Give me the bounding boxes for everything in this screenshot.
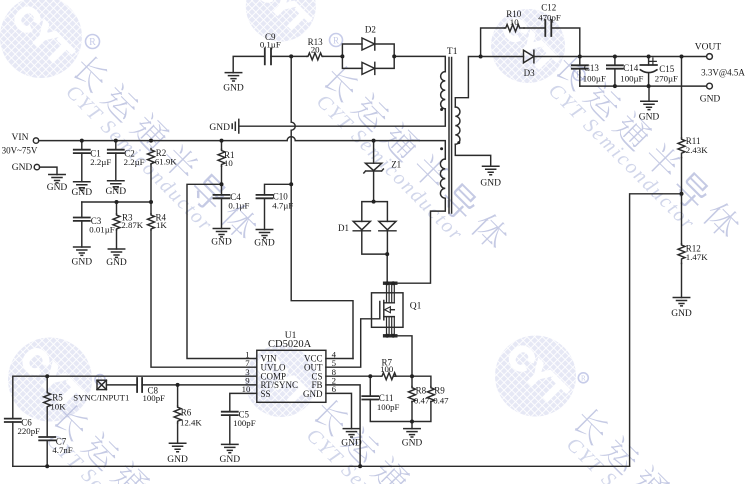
wire secondary top to output node bbox=[455, 57, 480, 108]
wire FB pin 2 to divider tap bbox=[326, 385, 360, 466]
wire output bottom rail bbox=[580, 85, 707, 87]
svg-text:R6: R6 bbox=[181, 407, 192, 417]
svg-text:220pF: 220pF bbox=[18, 426, 41, 436]
svg-text:R: R bbox=[333, 35, 339, 45]
svg-text:Q1: Q1 bbox=[410, 302, 422, 312]
wire R2 to mid node bbox=[150, 165, 152, 203]
svg-text:470pF: 470pF bbox=[538, 12, 561, 22]
resistor R11 bbox=[678, 57, 708, 194]
svg-text:0.01µF: 0.01µF bbox=[89, 224, 114, 234]
ground bbox=[254, 230, 275, 249]
ground bbox=[402, 429, 423, 449]
svg-text:100: 100 bbox=[380, 364, 394, 374]
node GND input terminal bbox=[12, 163, 40, 173]
svg-text:GND: GND bbox=[209, 123, 230, 133]
ground bbox=[167, 443, 188, 465]
transformer T1 bbox=[440, 47, 460, 213]
diode D3 bbox=[481, 50, 707, 78]
svg-text:0.47: 0.47 bbox=[433, 396, 449, 406]
svg-text:SYNC/INPUT1: SYNC/INPUT1 bbox=[73, 392, 129, 402]
wire source to current sense bbox=[396, 336, 412, 376]
svg-text:GND: GND bbox=[341, 438, 362, 448]
wire R13 to D2 bbox=[323, 55, 343, 57]
wire GND net line to transformer primary bottom bbox=[240, 109, 446, 126]
svg-text:100µF: 100µF bbox=[583, 73, 606, 83]
diode D2 (parallel pair) bbox=[342, 25, 394, 75]
svg-text:GND: GND bbox=[47, 183, 68, 193]
node VOUT terminal bbox=[695, 43, 746, 78]
resistor R3 bbox=[113, 202, 144, 249]
resistor R2 bbox=[148, 148, 178, 166]
svg-text:D1: D1 bbox=[338, 223, 349, 233]
svg-text:2.2µF: 2.2µF bbox=[124, 157, 145, 167]
wire D2 to transformer primary top bbox=[394, 56, 445, 71]
wire SS pin 10 bbox=[230, 393, 257, 411]
resistor R1 bbox=[218, 141, 235, 185]
resistor R6 bbox=[174, 385, 202, 443]
svg-text:270µF: 270µF bbox=[655, 73, 678, 83]
capacitor C8 bbox=[137, 378, 257, 403]
svg-text:GND: GND bbox=[700, 95, 721, 105]
svg-text:1.47K: 1.47K bbox=[686, 252, 708, 262]
svg-text:GND: GND bbox=[671, 309, 692, 319]
svg-text:GND: GND bbox=[480, 179, 501, 189]
capacitor C11 bbox=[362, 376, 412, 421]
svg-text:GND: GND bbox=[12, 163, 33, 173]
svg-text:2.43K: 2.43K bbox=[686, 145, 708, 155]
wire secondary bottom to ground bbox=[455, 144, 490, 166]
svg-text:20: 20 bbox=[311, 44, 320, 54]
wire primary2 bottom to Q1 drain bbox=[396, 198, 446, 283]
ground bbox=[106, 181, 127, 197]
svg-text:GND: GND bbox=[106, 187, 127, 197]
wire GND pin 6 bbox=[326, 393, 352, 428]
svg-text:R9: R9 bbox=[434, 386, 445, 396]
svg-text:GND: GND bbox=[223, 83, 244, 93]
resistor R5 bbox=[44, 376, 66, 437]
capacitor C14 bbox=[607, 57, 644, 87]
ground bbox=[223, 73, 244, 94]
wire CS pin 8 bbox=[326, 375, 381, 377]
resistor R9 bbox=[412, 376, 449, 421]
pin numbers U1 bbox=[242, 349, 337, 394]
svg-text:100pF: 100pF bbox=[377, 402, 400, 412]
svg-text:GND: GND bbox=[72, 257, 93, 267]
wire bbox=[40, 167, 57, 174]
svg-text:C13: C13 bbox=[584, 63, 600, 73]
svg-text:GND: GND bbox=[167, 455, 188, 465]
svg-text:3.3V@4.5A: 3.3V@4.5A bbox=[701, 67, 745, 77]
svg-text:100pF: 100pF bbox=[233, 418, 256, 428]
svg-text:12.4K: 12.4K bbox=[180, 418, 202, 428]
capacitor C15 (polarized) bbox=[640, 57, 678, 87]
resistor R4 bbox=[148, 202, 168, 230]
ground net label GND feeding primary return bbox=[209, 119, 238, 133]
svg-text:61.9K: 61.9K bbox=[155, 156, 177, 166]
ground bbox=[639, 101, 660, 122]
resistor R12 bbox=[678, 194, 708, 298]
svg-text:R: R bbox=[581, 374, 586, 382]
svg-text:T1: T1 bbox=[447, 47, 458, 57]
resistor R13 bbox=[307, 37, 323, 60]
wire to ground bbox=[411, 422, 413, 429]
resistor R7 bbox=[380, 357, 396, 379]
capacitor C12 bbox=[524, 3, 580, 57]
svg-text:4.7µF: 4.7µF bbox=[272, 201, 293, 211]
ground under C15 bbox=[648, 86, 650, 101]
wire R4 to UVLO pin 7 bbox=[151, 230, 257, 367]
wire COMP pin 3 bbox=[13, 376, 257, 418]
resistor R10 bbox=[505, 9, 525, 31]
capacitor C13 bbox=[572, 57, 606, 87]
wire output node up to R10 bbox=[481, 28, 505, 57]
resistor R8 bbox=[409, 376, 430, 421]
svg-text:SS: SS bbox=[261, 389, 271, 399]
ground bbox=[72, 182, 93, 198]
wire main input bus with hop over vertical bbox=[39, 137, 446, 159]
capacitor C4 bbox=[214, 184, 250, 228]
wire aux rail C9 node down to VCC (hops GND line) bbox=[291, 56, 353, 358]
svg-text:R8: R8 bbox=[416, 386, 427, 396]
ground bbox=[106, 249, 127, 268]
wire bbox=[106, 384, 137, 386]
wire mid bus bbox=[82, 201, 151, 203]
svg-text:C14: C14 bbox=[623, 63, 639, 73]
svg-text:VOUT: VOUT bbox=[695, 43, 722, 53]
svg-text:C12: C12 bbox=[541, 3, 556, 13]
svg-text:GND: GND bbox=[639, 112, 660, 122]
svg-text:2.87K: 2.87K bbox=[121, 220, 143, 230]
ground bbox=[671, 298, 692, 319]
ground bbox=[480, 166, 501, 188]
svg-text:Z1: Z1 bbox=[391, 159, 401, 169]
op-amp U1 CD5020A controller bbox=[257, 331, 326, 402]
svg-text:D2: D2 bbox=[365, 25, 376, 35]
diode D1 (parallel pair) bbox=[338, 202, 396, 255]
wire R1 node to VIN pin 1 bbox=[187, 184, 257, 358]
ground bbox=[72, 247, 93, 267]
capacitor C6 bbox=[5, 417, 40, 466]
svg-text:30V~75V: 30V~75V bbox=[2, 146, 38, 156]
ground bbox=[220, 444, 241, 465]
svg-text:D3: D3 bbox=[524, 68, 535, 78]
svg-text:R: R bbox=[89, 37, 96, 48]
capacitor C2 bbox=[108, 141, 145, 181]
svg-text:GND: GND bbox=[220, 455, 241, 465]
svg-text:1K: 1K bbox=[156, 220, 167, 230]
wire bbox=[394, 375, 412, 377]
capacitor C1 bbox=[74, 141, 112, 182]
svg-text:10: 10 bbox=[224, 158, 233, 168]
wire feedback tap to FB net bbox=[630, 194, 682, 467]
ground bbox=[211, 229, 232, 248]
svg-text:GND: GND bbox=[402, 438, 423, 448]
capacitor C7 bbox=[39, 436, 73, 466]
ground bbox=[47, 175, 68, 194]
svg-text:100µF: 100µF bbox=[620, 73, 643, 83]
node SYNC/INPUT1 port bbox=[73, 380, 129, 402]
svg-text:GND: GND bbox=[72, 188, 93, 198]
node GND output terminal bbox=[700, 83, 721, 104]
svg-text:100pF: 100pF bbox=[143, 393, 166, 403]
svg-text:10K: 10K bbox=[50, 401, 66, 411]
svg-text:VIN: VIN bbox=[12, 133, 29, 143]
wire VCC pin 4 bbox=[326, 358, 353, 360]
capacitor C5 bbox=[222, 410, 256, 445]
node junction dots bbox=[45, 54, 683, 468]
wire bottom bus bbox=[13, 465, 630, 467]
node VIN input terminal bbox=[2, 133, 39, 156]
zener Z1 bbox=[364, 141, 401, 202]
svg-text:4.7nF: 4.7nF bbox=[52, 445, 72, 455]
capacitor C9 bbox=[233, 32, 307, 72]
capacitor C3 bbox=[74, 202, 115, 247]
svg-text:GND: GND bbox=[303, 389, 323, 399]
svg-text:GND: GND bbox=[211, 238, 232, 248]
wire OUT pin 5 to gate bbox=[326, 319, 380, 367]
svg-text:2.2µF: 2.2µF bbox=[90, 157, 111, 167]
capacitor C10 bbox=[257, 184, 294, 229]
transistor Q1 bbox=[372, 283, 422, 336]
svg-text:10: 10 bbox=[510, 17, 519, 27]
svg-text:0.1µF: 0.1µF bbox=[260, 40, 281, 50]
svg-text:GND: GND bbox=[254, 239, 275, 249]
svg-text:GND: GND bbox=[106, 258, 127, 268]
svg-text:CD5020A: CD5020A bbox=[268, 339, 312, 350]
svg-text:0.1µF: 0.1µF bbox=[228, 201, 249, 211]
wire D1 to Q1 drain bbox=[386, 254, 388, 282]
ground bbox=[341, 429, 362, 449]
